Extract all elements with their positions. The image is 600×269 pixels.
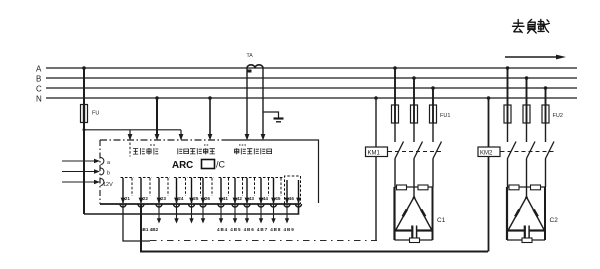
label 去负载 (to load, vector strokes) (513, 19, 550, 33)
terminal arrows (121, 198, 301, 204)
input stub b (62, 169, 100, 173)
fuse FU1 pole a (392, 105, 399, 123)
jumper drop x130 (129, 130, 131, 139)
capacitor plate right 2 (528, 226, 530, 239)
controller box border left dash-dot (99, 140, 101, 204)
contactor KM2 blade b (527, 142, 536, 159)
stub labels left (140, 227, 159, 232)
wire above switch c2 (545, 123, 547, 142)
svg-text:FU2: FU2 (553, 113, 563, 119)
wire phase b upper (413, 78, 415, 105)
delta base right 2 (530, 229, 545, 231)
capacitor C2 box (507, 187, 545, 240)
svg-text:24: 24 (178, 196, 184, 201)
svg-text:C: C (36, 85, 42, 94)
svg-text:45: 45 (275, 196, 281, 201)
contactor KM1 linkage (388, 151, 441, 153)
node tap B1 (412, 76, 416, 80)
discharge resistor R-bc 2 (531, 185, 541, 190)
fuse tick right side (421, 210, 425, 217)
terminal wires inside gates (123, 178, 299, 203)
wire phase c upper 2 (545, 88, 547, 105)
svg-text:23: 23 (161, 196, 167, 201)
internal relay gates dashed (121, 176, 301, 204)
terminal strip line (100, 203, 300, 205)
arrow into box x247 (245, 134, 250, 141)
svg-text:46: 46 (289, 196, 295, 201)
controller box border top dash-dot (100, 139, 228, 141)
label 电流取样信号 (vector cjk) (235, 148, 272, 154)
delta base left 2 (508, 229, 524, 231)
model rectangle (202, 160, 215, 169)
wire phase c upper (432, 88, 434, 105)
bus B (46, 77, 577, 79)
wire above switch a (394, 123, 396, 142)
delta base right (417, 229, 432, 231)
bottom discharge resistor 2 (522, 238, 532, 243)
wire CT secondary s2 (262, 68, 264, 136)
label 工作电源 (vector cjk) (133, 148, 158, 155)
terminal bumps (120, 204, 302, 207)
contactor KM1 blade a (395, 142, 404, 159)
wire below switch c (432, 159, 434, 188)
wire N drop x157 to controller (156, 98, 158, 136)
wire above switch a2 (507, 123, 509, 142)
delta winding right side 2 (527, 197, 545, 231)
svg-text:43: 43 (249, 196, 255, 201)
svg-text:4B1 4B2: 4B1 4B2 (140, 227, 159, 232)
controller box border top right solid (228, 140, 319, 203)
input connector curl a (101, 158, 104, 165)
node bus N tap x157 (155, 96, 159, 100)
svg-text:C2: C2 (550, 217, 559, 224)
wire CT secondary s1 (246, 68, 248, 136)
svg-text:A: A (36, 65, 42, 74)
bottom discharge resistor (410, 238, 420, 243)
contactor KM1 blade b (414, 142, 423, 159)
stub end arrows (157, 218, 289, 223)
fuse FU2 pole b (523, 105, 530, 123)
svg-text:KM2: KM2 (480, 151, 493, 157)
contactor KM2 blade c (546, 142, 555, 159)
tick above voltage label (204, 144, 209, 146)
KM1 coil wire upper (375, 98, 377, 147)
bus A (46, 67, 577, 69)
wire FU down left side (83, 122, 85, 214)
tick above current label (239, 144, 246, 146)
arrow into box x181 (179, 134, 184, 141)
fuse tick left side 2 (515, 210, 519, 217)
wire power jumper y129.5 (84, 129, 181, 131)
wire phase a upper 2 (507, 68, 509, 105)
wire W1 to KM1 coil (123, 204, 150, 241)
node tap N2 (487, 96, 491, 100)
svg-text:42: 42 (237, 196, 243, 201)
svg-text:TA: TA (247, 53, 254, 59)
wire phase A drop to FU (83, 68, 85, 105)
KM2 coil wire upper (488, 98, 490, 147)
svg-text:4B4 4B5 4B6 4B7 4B8 4B9: 4B4 4B5 4B6 4B7 4B8 4B9 (217, 227, 295, 232)
CT polarity mark (248, 70, 252, 73)
svg-text:25: 25 (193, 196, 199, 201)
jumper drop x181 (180, 130, 182, 139)
discharge resistor R-bc (418, 185, 428, 190)
delta winding right side (414, 197, 432, 231)
KM2 coil wire lower (488, 157, 490, 252)
terminal numbers (125, 196, 295, 201)
node tap C2 (544, 86, 548, 90)
arrow into box x210 (208, 134, 213, 141)
svg-text:12V: 12V (103, 182, 113, 188)
delta winding left side 2 (508, 197, 527, 231)
contactor KM1 blade c (433, 142, 442, 159)
fuse tick left side (403, 210, 407, 217)
wire above switch b2 (526, 123, 528, 142)
KM2 coil box (478, 147, 500, 157)
svg-text:KM1: KM1 (368, 151, 381, 157)
wire phase b upper 2 (526, 78, 528, 105)
bus N (46, 97, 577, 99)
CT TA on bus A (247, 65, 263, 68)
wire above switch c (432, 123, 434, 142)
input labels (103, 160, 113, 188)
load direction arrow (505, 55, 566, 60)
node bus A tap x84 (82, 66, 86, 70)
wire above switch b (413, 123, 415, 142)
capacitor C1 box (395, 187, 433, 240)
fuse FU2 pole a (504, 105, 511, 123)
contactor KM2 blade a (508, 142, 517, 159)
fuse FU2 pole c (542, 105, 549, 123)
label 信号取样电压 (vector cjk) (178, 148, 215, 154)
svg-text:b: b (107, 171, 110, 177)
svg-text:N: N (36, 95, 42, 104)
discharge resistor R-ab (397, 185, 407, 190)
delta base left (396, 229, 412, 231)
wire to ground (263, 112, 279, 118)
wire phase a upper (394, 68, 396, 105)
svg-text:/C: /C (216, 160, 226, 170)
arrow into box x263 (261, 134, 266, 141)
svg-text:a: a (107, 160, 111, 166)
svg-text:C1: C1 (437, 217, 446, 224)
fuse FU1 pole c (430, 105, 437, 123)
stub labels right (217, 227, 295, 232)
ground (274, 119, 284, 122)
input connector curl b (101, 168, 104, 175)
discharge resistor R-ab 2 (509, 185, 519, 190)
svg-text:FU1: FU1 (440, 113, 450, 119)
wire below switch c2 (545, 159, 547, 188)
svg-text:41: 41 (223, 196, 229, 201)
svg-text:44: 44 (263, 196, 269, 201)
wire to delta apex (413, 187, 415, 197)
node tap A1 (393, 66, 397, 70)
fuse FU1 pole b (411, 105, 418, 123)
wire below switch a (394, 159, 396, 188)
svg-text:26: 26 (205, 196, 211, 201)
capacitor plate right (416, 226, 418, 239)
input stub a (62, 159, 100, 163)
node tap A2 (506, 66, 510, 70)
dashed drop inside box x130 (129, 143, 131, 157)
arrow into box x157 (155, 134, 160, 141)
node tap N1 (374, 96, 378, 100)
svg-text:22: 22 (143, 196, 149, 201)
svg-text:21: 21 (125, 196, 131, 201)
KM1 coil box (366, 147, 388, 157)
spare output stubs (159, 204, 287, 222)
svg-text:B: B (36, 75, 41, 84)
node tap C1 (431, 86, 435, 90)
bus C (46, 87, 577, 89)
svg-text:FU: FU (92, 111, 99, 117)
wire below switch a2 (507, 159, 509, 188)
tick above power label (150, 144, 156, 146)
capacitor plate left 2 (524, 226, 526, 239)
capacitor plate left (411, 226, 413, 239)
fuse FU (81, 105, 88, 123)
wire N drop to controller (209, 98, 211, 136)
input stub c (62, 180, 100, 184)
wire to delta apex 2 (526, 187, 528, 197)
wire W1 dash-dot run (150, 240, 377, 242)
svg-text:ARC: ARC (172, 160, 193, 171)
fuse tick right side 2 (534, 210, 538, 217)
input connector curl c (101, 179, 104, 186)
wire bottom y214 to terminal (84, 204, 299, 214)
KM1 coil wire lower (375, 157, 377, 241)
node tap B2 (525, 76, 529, 80)
arrow into box x130 (128, 134, 133, 141)
node bus N tap x210 (208, 96, 212, 100)
wire W2 to KM2 coil (141, 204, 488, 252)
delta winding left side (396, 197, 415, 231)
contactor KM2 linkage (501, 151, 554, 153)
wire below switch b2 (526, 159, 528, 188)
wire below switch b (413, 159, 415, 188)
